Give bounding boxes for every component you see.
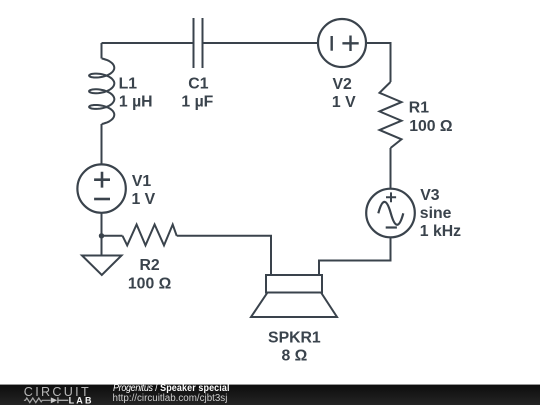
CircuitLab logo (0, 385, 100, 405)
svg-text:C1: C1 (188, 76, 208, 93)
wire V3 to speaker right terminal (319, 237, 391, 275)
svg-text:1 V: 1 V (132, 191, 156, 208)
svg-text:8 Ω: 8 Ω (281, 347, 307, 364)
schematic title (113, 383, 230, 395)
V3 minus sign (386, 226, 397, 228)
footer bar top edge (0, 384, 540, 385)
wire left column top (101, 43, 103, 59)
resistor R2 (123, 225, 177, 246)
svg-text:SPKR1: SPKR1 (268, 329, 321, 346)
wire top right (V2 to R1 top) (366, 43, 391, 82)
svg-text:1 V: 1 V (332, 94, 356, 111)
wire L1 to V1 (101, 124, 103, 164)
V3 plus sign (386, 192, 396, 202)
svg-text:V3: V3 (420, 187, 440, 204)
wire R1 to V3 (390, 148, 392, 189)
logo diode (51, 397, 57, 403)
ground symbol (82, 256, 122, 276)
voltage source V3 circle (366, 189, 415, 238)
V1 minus sign (94, 198, 110, 201)
svg-text:R1: R1 (409, 100, 429, 117)
svg-text:V2: V2 (333, 76, 353, 93)
wire node to R2 (102, 235, 123, 237)
svg-text:1 µF: 1 µF (181, 94, 213, 111)
schematic url (113, 393, 228, 405)
capacitor C1 (194, 18, 203, 68)
V3 sine symbol (378, 202, 403, 225)
svg-text:100 Ω: 100 Ω (128, 275, 172, 292)
speaker SPKR1 cone (251, 293, 337, 318)
V1 plus sign (94, 172, 110, 188)
svg-text:1 µH: 1 µH (119, 94, 153, 111)
svg-text:V1: V1 (132, 173, 152, 190)
logo resistor zigzag (24, 398, 51, 403)
svg-text:sine: sine (420, 205, 452, 222)
speaker SPKR1 frame (266, 275, 322, 293)
node A junction dot (99, 233, 104, 238)
svg-text:LAB: LAB (69, 396, 94, 405)
voltage source V2 circle (318, 19, 366, 67)
V2 plus sign (342, 36, 358, 52)
wire top left horizontal (102, 42, 194, 44)
voltage source V1 circle (77, 164, 125, 212)
svg-text:R2: R2 (139, 257, 159, 274)
wire top middle (C1 to V2) (203, 42, 319, 44)
wire R2 to speaker left terminal (177, 236, 271, 275)
resistor R1 (380, 82, 402, 148)
wire V1 to ground (101, 213, 103, 256)
svg-text:1 kHz: 1 kHz (420, 223, 461, 240)
svg-text:L1: L1 (119, 76, 138, 93)
footer bar (0, 385, 540, 405)
svg-text:100 Ω: 100 Ω (409, 118, 453, 135)
inductor L1 (89, 59, 114, 125)
V2 minus bar (331, 36, 333, 51)
